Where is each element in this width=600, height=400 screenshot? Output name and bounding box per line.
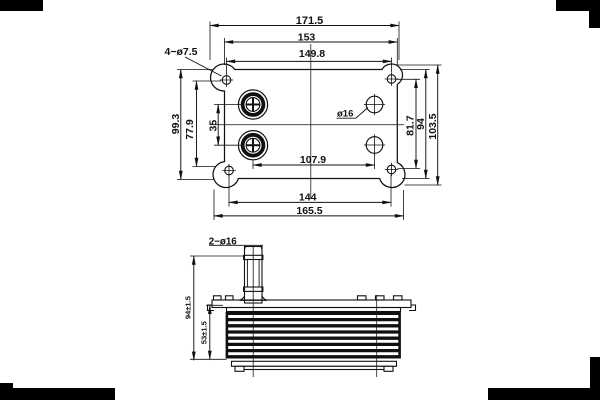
svg-text:165.5: 165.5 — [296, 205, 322, 217]
svg-text:107.9: 107.9 — [300, 154, 326, 166]
svg-text:ø16: ø16 — [337, 109, 353, 120]
svg-text:94: 94 — [415, 118, 427, 130]
svg-text:99.3: 99.3 — [170, 114, 182, 135]
svg-text:171.5: 171.5 — [296, 15, 324, 27]
svg-text:4−ø7.5: 4−ø7.5 — [165, 46, 198, 58]
svg-text:103.5: 103.5 — [427, 113, 439, 139]
svg-text:77.9: 77.9 — [184, 119, 196, 140]
svg-text:94±1.5: 94±1.5 — [183, 295, 192, 319]
svg-text:144: 144 — [299, 192, 317, 204]
svg-text:35: 35 — [208, 120, 220, 132]
svg-text:149.8: 149.8 — [299, 48, 325, 60]
svg-text:153: 153 — [298, 31, 316, 43]
svg-text:2−ø16: 2−ø16 — [209, 236, 238, 247]
svg-text:53±1.5: 53±1.5 — [200, 320, 209, 344]
